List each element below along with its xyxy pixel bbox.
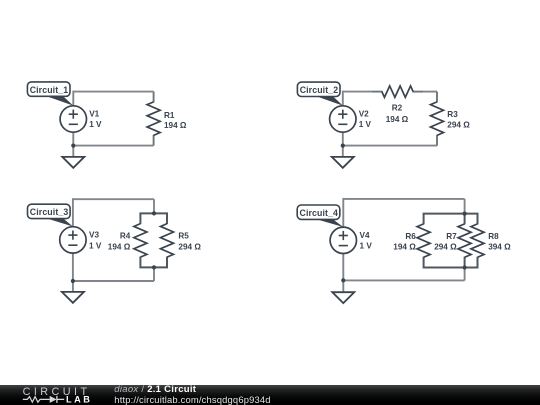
junction C3 bus bottom (152, 265, 156, 269)
wire C3 bottom bus (140, 257, 167, 268)
voltage source V2 (330, 106, 356, 132)
wire C3 bottom (73, 280, 154, 282)
svg-text:Circuit_3: Circuit_3 (30, 207, 69, 217)
wire C4 source top stub (342, 198, 344, 227)
wire C2 top left (343, 91, 372, 93)
svg-text:294 Ω: 294 Ω (178, 242, 201, 251)
label R5 value (178, 232, 201, 252)
svg-text:R7: R7 (446, 232, 457, 241)
label V1 value (89, 110, 102, 129)
wire C4 bottom bus (424, 257, 478, 268)
wire C2 bottom (343, 145, 437, 147)
resistor R3 (431, 92, 444, 146)
ground C3 (62, 292, 84, 303)
svg-text:V1: V1 (89, 110, 99, 119)
wire C3 ground stub (72, 281, 74, 292)
svg-text:294 Ω: 294 Ω (447, 121, 470, 130)
wire C1 ground stub (72, 146, 74, 157)
footer url (114, 394, 270, 405)
wire C4 top (343, 198, 464, 200)
svg-text:1 V: 1 V (360, 242, 373, 251)
wire C2 source top stub (342, 91, 344, 106)
svg-text:R1: R1 (164, 111, 175, 120)
resistor R5 (161, 224, 174, 258)
svg-text:294 Ω: 294 Ω (434, 243, 457, 252)
junction C1 bottom node (71, 144, 75, 148)
node label callout Circuit_4 (297, 205, 343, 227)
svg-text:194 Ω: 194 Ω (108, 242, 131, 251)
wire C4 top feed (464, 199, 466, 214)
wire C1 source bottom stub (72, 132, 74, 145)
resistor R1 (147, 92, 160, 146)
wire C1 source top stub (72, 91, 74, 106)
label V2 value (359, 110, 372, 129)
svg-text:1 V: 1 V (89, 120, 102, 129)
label R2 value (386, 104, 409, 124)
voltage source V1 (60, 106, 86, 132)
wire C3 source bottom stub (72, 253, 74, 281)
label R6 value (393, 232, 416, 252)
svg-text:LAB: LAB (66, 394, 92, 404)
resistor R2 (372, 86, 424, 97)
label R1 value (164, 111, 187, 130)
wire C3 source top stub (72, 198, 74, 227)
svg-text:R6: R6 (405, 232, 416, 241)
voltage source V4 (330, 227, 356, 253)
junction C4 bus bottom (463, 265, 467, 269)
svg-text:194 Ω: 194 Ω (393, 243, 416, 252)
svg-text:1 V: 1 V (359, 120, 372, 129)
svg-text:194 Ω: 194 Ω (386, 115, 409, 124)
wire C2 source bottom stub (342, 132, 344, 145)
label R7 value (434, 232, 457, 252)
wire C1 top (73, 91, 153, 93)
wire C3 top bus (140, 213, 167, 224)
wire C1 bottom (73, 145, 153, 147)
label R3 value (447, 110, 470, 129)
label R4 value (108, 232, 131, 252)
ground C2 (332, 157, 354, 168)
svg-text:R3: R3 (447, 110, 458, 119)
junction C2 bottom node (341, 144, 345, 148)
svg-text:R8: R8 (488, 232, 499, 241)
svg-text:R5: R5 (178, 232, 189, 241)
node label callout Circuit_3 (28, 204, 73, 226)
ground C4 (332, 292, 354, 303)
junction C3 bottom node (71, 279, 75, 283)
svg-text:V3: V3 (89, 231, 99, 240)
label V3 value (89, 231, 102, 251)
ground C1 (62, 157, 84, 168)
label V4 value (360, 231, 373, 251)
junction C3 bus top (152, 211, 156, 215)
wire C3 bottom feed (153, 267, 155, 281)
wire C4 source bottom stub (342, 254, 344, 281)
svg-text:194 Ω: 194 Ω (164, 121, 187, 130)
svg-text:Circuit_4: Circuit_4 (300, 208, 339, 218)
wire C4 top bus (424, 214, 478, 225)
wire C4 bottom feed (464, 268, 466, 281)
wire C3 top feed (153, 199, 155, 213)
svg-text:Circuit_2: Circuit_2 (300, 85, 339, 95)
logo resistor+diode glyph (23, 397, 50, 403)
CircuitLab logo (0, 384, 100, 405)
svg-text:R2: R2 (392, 104, 403, 113)
svg-text:V4: V4 (360, 231, 370, 240)
svg-text:394 Ω: 394 Ω (488, 243, 511, 252)
footer bar (0, 385, 540, 405)
wire C4 bottom (343, 279, 464, 281)
wire C4 ground stub (342, 280, 344, 292)
node label callout Circuit_2 (297, 82, 342, 106)
resistor R6 (417, 224, 430, 257)
wire C3 top (73, 198, 154, 200)
junction C4 bus top (463, 212, 467, 216)
node label callout Circuit_1 (27, 82, 73, 106)
wire C2 ground stub (342, 146, 344, 157)
svg-text:V2: V2 (359, 110, 369, 119)
voltage source V3 (60, 227, 86, 253)
svg-text:R4: R4 (120, 232, 131, 241)
resistor R8 (471, 224, 484, 257)
resistor R4 (134, 224, 147, 258)
junction C4 bottom node (341, 278, 345, 282)
footer title (114, 384, 196, 395)
wire C2 top right (423, 91, 437, 93)
svg-text:1 V: 1 V (89, 241, 102, 250)
resistor R7 (458, 224, 471, 257)
svg-text:Circuit_1: Circuit_1 (30, 85, 69, 95)
label R8 value (488, 232, 511, 252)
